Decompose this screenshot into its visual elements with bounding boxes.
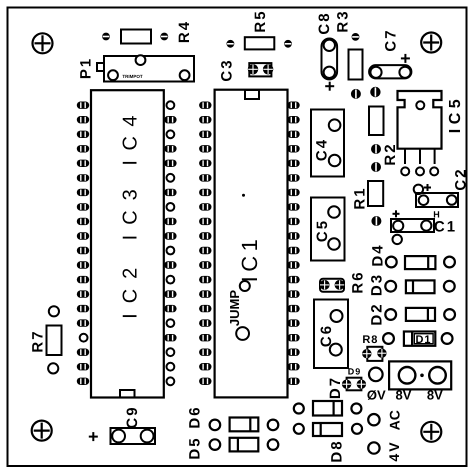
diode D3 [385, 280, 454, 293]
IC1 left pin 20 [199, 378, 211, 385]
IC1 right pin 8 [287, 203, 299, 210]
IC1 left pin 10 [199, 232, 211, 239]
svg-text:IC2: IC2 [120, 258, 142, 319]
svg-text:AC: AC [386, 410, 402, 430]
svg-text:D8: D8 [328, 439, 345, 462]
capacitor C2 right pad [447, 195, 457, 205]
svg-text:R2: R2 [382, 142, 399, 165]
IC1 left pin 3 [199, 131, 211, 138]
resistor R7 top pad [49, 306, 59, 316]
capacitor C8 body [322, 39, 338, 80]
IC right pin R16 [167, 319, 175, 327]
diode D1 [383, 332, 452, 346]
resistor R5 left pad [227, 40, 235, 48]
capacitor C4 top pad [329, 119, 341, 131]
svg-text:8V: 8V [396, 387, 412, 402]
IC left pin L1 [77, 102, 89, 109]
IC1 right pin 1 [287, 102, 299, 109]
IC1 left pin 13 [199, 276, 211, 283]
IC left pin L4 [77, 145, 89, 152]
svg-text:R6: R6 [349, 270, 366, 293]
terminal hole 8V left [399, 367, 416, 384]
svg-text:D6: D6 [186, 405, 203, 428]
IC right pin R2 [164, 116, 176, 123]
resistor R6 left pad [320, 280, 330, 290]
IC right pin R6 [167, 174, 175, 182]
jumper top pad [240, 281, 250, 291]
IC right pin R14 [164, 290, 176, 297]
svg-text:IC3: IC3 [120, 179, 142, 240]
IC5 tab hole [416, 101, 424, 109]
diode D5 [210, 438, 279, 452]
resistor R3 top pad [352, 33, 360, 41]
C7 plus mark [401, 54, 410, 63]
IC right pin R20 [167, 377, 175, 385]
diode D4 [386, 256, 455, 269]
svg-text:JUMP: JUMP [227, 290, 242, 326]
IC right pin R4 [164, 145, 176, 152]
IC1 right pin 2 [287, 116, 299, 123]
pad AC [368, 414, 379, 425]
IC left pin L12 [77, 261, 89, 268]
IC1 left pin 16 [199, 319, 211, 326]
IC1 right pin 6 [287, 174, 299, 181]
IC1 right pin 12 [287, 261, 299, 268]
resistor R2 top pad [370, 87, 380, 97]
capacitor C5 top pad [328, 206, 340, 218]
IC left pin L3 [77, 131, 89, 138]
IC right pin R13 [167, 276, 175, 284]
C2 plus mark [424, 184, 431, 191]
resistor R1 bottom pad [371, 216, 381, 226]
IC1 right pin 17 [287, 334, 299, 341]
IC1 right pin 5 [287, 160, 299, 167]
mounting hole top-left [33, 33, 53, 53]
capacitor C8 top pad [324, 40, 335, 51]
capacitor C9 left pad [112, 430, 125, 443]
capacitor C6 body [314, 300, 348, 369]
IC left pin L8 [77, 203, 89, 210]
IC left pin L13 [77, 276, 89, 283]
svg-text:C6: C6 [318, 324, 335, 347]
svg-text:D3: D3 [368, 273, 385, 296]
IC5 pin 3 pad [430, 167, 438, 175]
capacitor C3 body [249, 63, 271, 76]
svg-text:TRIMPOT: TRIMPOT [122, 74, 142, 79]
capacitor C2 left pad [419, 195, 429, 205]
svg-text:R3: R3 [334, 9, 351, 32]
IC1 right pin 9 [287, 218, 299, 225]
IC1 pin1 dot [242, 194, 245, 197]
IC right pin R5 [164, 160, 176, 167]
IC1 right pin 13 [287, 276, 299, 283]
svg-text:R7: R7 [29, 329, 46, 352]
resistor R4 body [121, 30, 151, 44]
IC1 right pin 10 [287, 232, 299, 239]
svg-text:C1: C1 [434, 218, 457, 235]
resistor R6 body [320, 279, 344, 292]
capacitor C1 left pad [393, 221, 403, 231]
svg-text:D7: D7 [327, 376, 344, 399]
pad 0V [369, 368, 383, 382]
capacitor C2 body [416, 193, 458, 207]
capacitor C7 right pad [399, 67, 410, 78]
svg-text:C2: C2 [452, 167, 469, 190]
IC left pin L15 [77, 305, 89, 312]
pad 4V [368, 442, 379, 453]
IC right pin R15 [164, 305, 176, 312]
IC right pin R17 [164, 334, 176, 341]
IC1 left pin 9 [199, 218, 211, 225]
diode D9 left pad [342, 380, 351, 389]
svg-text:4V: 4V [386, 440, 402, 461]
capacitor C1 body [391, 219, 434, 232]
IC right pin R18 [167, 348, 175, 356]
IC1 left pin 8 [199, 203, 211, 210]
diode D9 body [347, 378, 362, 391]
resistor R4 left pad [102, 33, 110, 41]
IC1 left pin 4 [199, 145, 211, 152]
IC1 right pin 3 [287, 131, 299, 138]
resistor R1 body [368, 181, 383, 206]
svg-text:D4: D4 [369, 243, 386, 266]
IC1 right pin 19 [287, 363, 299, 370]
resistor R8 body [367, 347, 382, 361]
IC1 right pin 7 [287, 189, 299, 196]
capacitor C7 left pad [370, 67, 381, 78]
diode D7 [294, 401, 362, 416]
IC left pin L10 [77, 232, 89, 239]
IC1 right pin 11 [287, 247, 299, 254]
terminal hole 8V right [429, 367, 446, 384]
resistor R7 bottom pad [48, 363, 58, 373]
C1 plus mark [393, 210, 400, 217]
resistor R7 body [47, 326, 62, 356]
svg-text:D2: D2 [368, 302, 385, 325]
C8 plus mark [325, 82, 334, 91]
IC5 legs [405, 149, 435, 164]
capacitor C9 body [111, 428, 156, 444]
IC1 left pin 14 [199, 290, 211, 297]
IC left pin L14 [77, 290, 89, 297]
IC1 left pin 11 [199, 247, 211, 254]
IC5 pin 1 pad [401, 167, 409, 175]
resistor R8 right pad [377, 349, 386, 358]
IC left pin L5 [77, 160, 89, 167]
svg-text:IC5: IC5 [447, 95, 464, 133]
resistor R4 right pad [160, 33, 168, 41]
resistor R1 top pad [371, 162, 381, 172]
svg-text:P1: P1 [77, 57, 94, 79]
jumper bottom pad [236, 327, 249, 340]
svg-text:C3: C3 [218, 58, 235, 81]
resistor R5 right pad [284, 40, 292, 48]
IC1 right pin 15 [287, 305, 299, 312]
IC right pin R3 [167, 130, 175, 138]
svg-text:C5: C5 [314, 219, 331, 242]
IC right pin R8 [167, 203, 175, 211]
svg-text:C4: C4 [313, 138, 330, 161]
IC left pin L19 [77, 363, 89, 370]
IC1 right pin 4 [287, 145, 299, 152]
terminal block body [389, 361, 451, 389]
IC1 left pin 2 [199, 116, 211, 123]
resistor R2 bottom pad [371, 144, 381, 154]
IC5 pin 2 pad [416, 167, 424, 175]
capacitor C7 body [369, 65, 411, 78]
node below C1 [393, 235, 402, 244]
trimpot P1 wiper pad [136, 55, 146, 65]
capacitor C3 right pad [263, 64, 273, 74]
diode D2 [385, 308, 455, 321]
terminal block center dot [420, 374, 424, 378]
mounting hole top-right [421, 33, 441, 53]
resistor R3 body [349, 50, 363, 80]
capacitor C5 body [311, 198, 345, 261]
svg-text:C7: C7 [382, 28, 399, 51]
IC1 left pin 6 [199, 174, 211, 181]
trimpot P1 body [97, 56, 194, 82]
IC1 left pin 1 [199, 102, 211, 109]
trimpot P1 right pad [180, 70, 190, 80]
IC1 right pin 16 [287, 319, 299, 326]
capacitor C5 bottom pad [328, 238, 340, 250]
svg-text:8V: 8V [427, 387, 443, 402]
IC1 left pin 18 [199, 349, 211, 356]
IC left pin L9 [77, 218, 89, 225]
IC right pin R1 [167, 101, 175, 109]
capacitor C6 top pad [331, 310, 343, 322]
svg-text:R4: R4 [176, 20, 193, 43]
IC1 left pin 15 [199, 305, 211, 312]
IC1 right pin 18 [287, 349, 299, 356]
IC1 left pin 17 [199, 334, 211, 341]
resistor R8 left pad [362, 349, 371, 358]
IC1 body [215, 90, 288, 398]
IC right pin R12 [164, 261, 176, 268]
svg-text:D1: D1 [415, 334, 431, 346]
capacitor C2 plus pad marker [414, 185, 423, 194]
IC1 left pin 12 [199, 261, 211, 268]
regulator IC5 body [398, 91, 442, 149]
IC1 left pin 19 [199, 363, 211, 370]
svg-text:D9: D9 [348, 367, 362, 377]
svg-text:R1: R1 [351, 186, 368, 209]
IC2 IC3 IC4 body [91, 90, 164, 397]
IC1 top notch [245, 90, 259, 99]
resistor R6 right pad [335, 280, 345, 290]
capacitor C8 bottom pad [324, 67, 335, 78]
capacitor C4 bottom pad [329, 155, 341, 167]
IC1 right pin 20 [287, 378, 299, 385]
resistor R5 body [245, 37, 274, 49]
IC right pin R19 [167, 363, 175, 371]
IC1 right pin 14 [287, 290, 299, 297]
trimpot P1 left pad [108, 70, 118, 80]
capacitor C3 left pad [248, 64, 258, 74]
svg-text:C8: C8 [316, 11, 333, 34]
mounting hole bottom-right [421, 422, 441, 442]
resistor R2 body [369, 107, 384, 136]
mounting hole bottom-left [32, 421, 52, 441]
IC right pin R10 [164, 232, 176, 239]
diode D8 [294, 423, 362, 436]
capacitor C1 right pad [421, 221, 431, 231]
IC left pin L20 [77, 378, 89, 385]
IC left pin L11 [77, 247, 89, 254]
svg-text:D5: D5 [186, 436, 203, 459]
svg-text:IC4: IC4 [120, 106, 142, 166]
IC left pin L17 [80, 334, 88, 342]
svg-text:C9: C9 [124, 405, 141, 428]
capacitor C4 body [311, 110, 344, 177]
IC right pin R7 [164, 189, 176, 196]
IC1 left pin 7 [199, 189, 211, 196]
IC left pin L7 [77, 189, 89, 196]
svg-text:IC1: IC1 [237, 235, 262, 283]
IC left pin L2 [77, 116, 89, 123]
IC left pin L16 [77, 319, 89, 326]
IC left pin L6 [77, 174, 89, 181]
svg-text:R5: R5 [252, 9, 269, 32]
C9 plus mark [89, 432, 98, 441]
IC right pin R11 [167, 247, 175, 255]
diode D9 right pad [357, 380, 366, 389]
resistor R3 bottom pad [351, 89, 361, 99]
svg-text:R8: R8 [362, 334, 378, 346]
IC left pin L18 [77, 349, 89, 356]
IC2 IC3 IC4 bottom notch [120, 390, 135, 398]
IC1 left pin 5 [199, 160, 211, 167]
capacitor C9 right pad [141, 430, 154, 443]
IC right pin R9 [164, 218, 176, 225]
svg-text:ØV: ØV [367, 387, 386, 402]
diode D6 [210, 418, 279, 432]
capacitor C6 bottom pad [330, 344, 342, 356]
